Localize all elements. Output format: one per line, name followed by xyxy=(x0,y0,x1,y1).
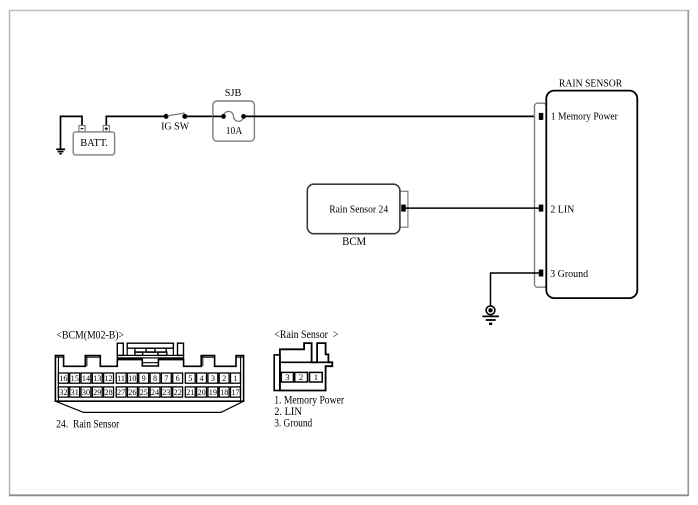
svg-text:7: 7 xyxy=(164,374,168,383)
svg-text:13: 13 xyxy=(93,374,101,383)
BCM connector pin 28 xyxy=(104,387,114,397)
svg-text:3 Ground: 3 Ground xyxy=(550,268,589,280)
svg-text:6: 6 xyxy=(176,374,180,383)
BCM connector pin 11 xyxy=(116,373,126,383)
svg-text:31: 31 xyxy=(71,388,79,397)
BCM connector pin 5 xyxy=(185,373,195,383)
BCM connector pin 20 xyxy=(197,387,207,397)
BCM connector pin 7 xyxy=(161,373,171,383)
BCM connector pin 29 xyxy=(92,387,102,397)
svg-text:10A: 10A xyxy=(226,125,242,137)
BCM box xyxy=(307,184,400,234)
svg-text:14: 14 xyxy=(82,374,90,383)
svg-text:21: 21 xyxy=(186,388,194,397)
BCM connector pin 2 xyxy=(219,373,229,383)
wire SJB fuse to rain sensor pin 1 xyxy=(244,115,539,117)
svg-text:3. Ground: 3. Ground xyxy=(274,417,312,429)
BCM connector pin 8 xyxy=(150,373,160,383)
rain sensor connector pin 2 xyxy=(295,372,308,382)
svg-text:5: 5 xyxy=(188,374,192,383)
BCM connector pin 26 xyxy=(128,387,138,397)
svg-text:<BCM(M02-B)>: <BCM(M02-B)> xyxy=(57,329,125,341)
svg-text:IG SW: IG SW xyxy=(161,120,190,132)
svg-text:24. Rain Sensor: 24. Rain Sensor xyxy=(56,418,119,430)
BCM connector housing xyxy=(55,356,243,413)
BCM pin 24 xyxy=(401,205,406,212)
svg-text:8: 8 xyxy=(153,374,157,383)
svg-text:1. Memory Power: 1. Memory Power xyxy=(274,394,344,406)
svg-text:10: 10 xyxy=(128,374,136,383)
svg-text:1: 1 xyxy=(314,372,318,382)
wire battery positive terminal to IG SW xyxy=(106,116,164,126)
rain sensor connector pin 3 xyxy=(281,372,293,382)
rain sensor connector pin 1 xyxy=(310,372,323,382)
svg-text:18: 18 xyxy=(220,388,228,397)
BCM connector pin 4 xyxy=(197,373,207,383)
svg-text:30: 30 xyxy=(82,388,90,397)
svg-text:27: 27 xyxy=(117,388,125,397)
svg-text:RAIN SENSOR: RAIN SENSOR xyxy=(559,78,623,90)
BCM connector pin 10 xyxy=(128,373,138,383)
svg-text:3: 3 xyxy=(285,372,290,382)
svg-text:17: 17 xyxy=(231,388,239,397)
BCM connector pin 18 xyxy=(219,387,229,397)
BCM connector pin 9 xyxy=(139,373,149,383)
svg-text:16: 16 xyxy=(59,374,67,383)
rain sensor pin 1 Memory Power xyxy=(539,111,618,123)
BCM connector pin 15 xyxy=(70,373,80,383)
BCM connector pin 23 xyxy=(161,387,171,397)
ground (rain sensor, chassis ground symbol) xyxy=(482,306,499,325)
svg-text:2 LIN: 2 LIN xyxy=(550,203,574,215)
svg-text:Rain Sensor 24: Rain Sensor 24 xyxy=(329,203,388,215)
svg-text:SJB: SJB xyxy=(225,88,242,99)
rain sensor pin 3 Ground xyxy=(539,268,589,280)
fuse 10A xyxy=(213,111,246,137)
svg-text:26: 26 xyxy=(128,388,136,397)
BCM connector pin 31 xyxy=(70,387,80,397)
svg-text:19: 19 xyxy=(209,388,217,397)
BCM connector tab xyxy=(400,191,408,227)
BCM connector pin 1 xyxy=(231,373,241,383)
BCM connector pin 13 xyxy=(92,373,102,383)
BCM connector pin 32 xyxy=(58,387,68,397)
svg-text:9: 9 xyxy=(142,374,146,383)
svg-text:22: 22 xyxy=(174,388,182,397)
svg-text:12: 12 xyxy=(104,374,112,383)
BCM connector pin 25 xyxy=(139,387,149,397)
BCM connector latch xyxy=(117,343,183,363)
svg-text:15: 15 xyxy=(71,374,79,383)
svg-text:2: 2 xyxy=(222,374,226,383)
rain sensor box RAIN SENSOR xyxy=(546,78,637,298)
BCM connector pin 24 xyxy=(150,387,160,397)
svg-text:1 Memory Power: 1 Memory Power xyxy=(551,111,618,123)
svg-text:<Rain Sensor >: <Rain Sensor > xyxy=(274,329,338,341)
rain sensor connector housing xyxy=(274,343,332,390)
wire BCM pin 24 to rain sensor pin 2 LIN xyxy=(406,207,539,209)
BCM connector pin 21 xyxy=(185,387,195,397)
BCM connector pin 22 xyxy=(173,387,183,397)
ground (battery, earth symbol) xyxy=(56,149,65,153)
battery negative terminal xyxy=(79,126,85,132)
battery positive terminal xyxy=(103,126,109,132)
svg-text:32: 32 xyxy=(59,388,67,397)
BCM connector pin 6 xyxy=(173,373,183,383)
svg-text:11: 11 xyxy=(117,374,125,383)
svg-text:2: 2 xyxy=(299,372,303,382)
BCM connector pin 17 xyxy=(231,387,241,397)
SJB box xyxy=(213,88,255,141)
BCM connector pin 19 xyxy=(208,387,218,397)
svg-text:BATT.: BATT. xyxy=(80,137,108,149)
svg-text:20: 20 xyxy=(198,388,206,397)
wire battery negative terminal to ground xyxy=(61,116,83,149)
svg-text:28: 28 xyxy=(104,388,112,397)
rain sensor pin 2 LIN xyxy=(539,203,575,215)
svg-text:24: 24 xyxy=(151,388,159,397)
svg-text:25: 25 xyxy=(140,388,148,397)
switch IG SW xyxy=(161,113,190,132)
BCM connector pin 12 xyxy=(104,373,114,383)
wire rain sensor pin 3 to ground xyxy=(491,273,540,306)
BCM connector pin 30 xyxy=(81,387,91,397)
BCM connector pin 27 xyxy=(116,387,126,397)
svg-text:1: 1 xyxy=(233,374,237,383)
wire IG SW to SJB fuse xyxy=(187,115,224,117)
rain sensor connector shell xyxy=(535,103,547,287)
svg-text:3: 3 xyxy=(211,374,215,383)
svg-text:29: 29 xyxy=(93,388,101,397)
svg-text:4: 4 xyxy=(200,374,204,383)
svg-text:23: 23 xyxy=(162,388,170,397)
BCM connector pin 14 xyxy=(81,373,91,383)
svg-text:BCM: BCM xyxy=(342,236,366,248)
BCM connector pin 3 xyxy=(208,373,218,383)
svg-text:2. LIN: 2. LIN xyxy=(274,406,302,418)
battery BATT. xyxy=(73,132,114,155)
BCM connector pin 16 xyxy=(58,373,68,383)
